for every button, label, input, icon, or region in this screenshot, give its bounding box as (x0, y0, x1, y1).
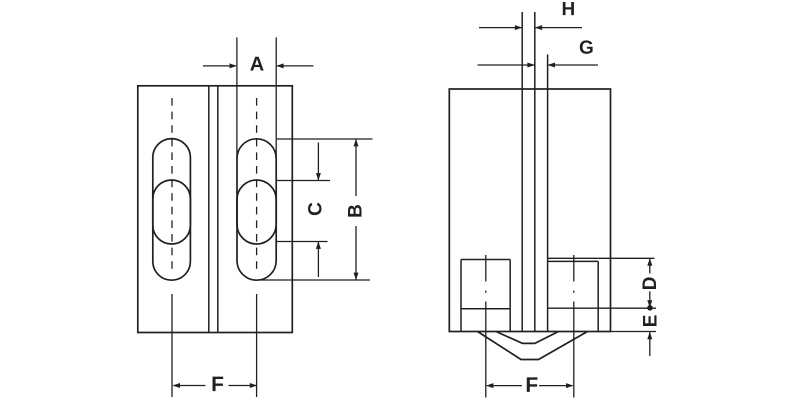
svg-text:A: A (250, 53, 264, 75)
dim D/E junction dot (647, 305, 653, 311)
right view: part body outline (449, 89, 610, 332)
right slot outline (237, 139, 276, 280)
right pocket centerline dash-dot (573, 255, 575, 332)
svg-text:F: F (525, 374, 538, 397)
dim F(right) right arrowhead (566, 383, 573, 388)
right pocket inner line / D bottom extension (548, 307, 656, 309)
dim G right leader (548, 64, 598, 66)
V point inner profile (496, 332, 559, 344)
left slot dashed centerline (171, 98, 173, 272)
dim A extension line left (236, 37, 238, 158)
sawcut slot line right (534, 12, 536, 332)
dim C bottom extension line (276, 241, 328, 243)
svg-text:E: E (641, 315, 662, 328)
dim H left arrowhead (515, 25, 522, 30)
left view: part body outline (138, 86, 292, 333)
svg-text:F: F (211, 373, 224, 396)
right pocket second top edge (548, 260, 599, 262)
dim B line upper (355, 140, 357, 196)
right slot counterbore capsule (237, 180, 276, 244)
right pocket right side (597, 261, 599, 331)
sawcut slot line left (521, 12, 523, 332)
left slot outline (153, 139, 191, 281)
dim D top arrowhead (647, 258, 652, 265)
dim C top leader (317, 143, 319, 180)
dim F(right) line left segment (487, 385, 522, 387)
left pocket centerline dash-dot (485, 255, 487, 332)
left F extension line (171, 294, 173, 397)
dim A extension line right (275, 37, 277, 158)
right F extension line (256, 294, 258, 397)
dim F(right) line right segment (539, 385, 573, 387)
step line (G) (547, 54, 549, 331)
dim A right leader (277, 65, 314, 67)
dim B top extension line (277, 138, 373, 140)
F(right) extension line left (485, 332, 487, 398)
dim A right arrowhead (276, 63, 283, 68)
dim H right leader (536, 27, 582, 29)
dim F(left) line left segment (174, 385, 206, 387)
dim F(left) right arrowhead (250, 383, 257, 388)
svg-text:C: C (305, 202, 326, 216)
dim G right arrowhead (548, 63, 555, 68)
svg-text:H: H (562, 0, 576, 20)
dim H left leader (479, 27, 521, 29)
dim G left leader (478, 64, 535, 66)
left pocket inner line (461, 308, 510, 310)
V point outer profile (478, 332, 588, 360)
left view: groove line 2 (217, 87, 219, 333)
dim A left arrowhead (230, 63, 237, 68)
right pocket top edge / D top extension (548, 257, 655, 259)
dim C top arrowhead (316, 173, 321, 180)
left view: groove line 1 (208, 87, 210, 333)
dim H right arrowhead (535, 25, 542, 30)
dim D line upper (649, 259, 651, 274)
right slot dashed centerline (256, 98, 258, 272)
dim C bottom arrowhead (316, 242, 321, 249)
F(right) extension line right (573, 332, 575, 398)
dim B bottom arrowhead (354, 273, 359, 280)
dim C bottom leader (317, 242, 319, 277)
svg-text:G: G (579, 38, 594, 59)
dim E bottom leader (649, 332, 651, 356)
dim C top extension line (277, 180, 330, 182)
dim F(left) left arrowhead (173, 383, 180, 388)
dim A left leader (203, 65, 236, 67)
dim G left arrowhead (527, 63, 534, 68)
dim D line lower (649, 291, 651, 307)
dim B top arrowhead (354, 139, 359, 146)
left pocket right side (509, 260, 511, 332)
dim B line lower (355, 226, 357, 279)
dim F(right) left arrowhead (486, 383, 493, 388)
dim B bottom extension line (260, 279, 370, 281)
left pocket left side (460, 260, 462, 332)
svg-text:D: D (640, 277, 661, 291)
left slot counterbore capsule (153, 180, 191, 244)
bottom edge extension for E (611, 331, 657, 333)
svg-text:B: B (346, 204, 367, 218)
dim E bottom arrowhead (647, 332, 652, 339)
dim F(left) line right segment (229, 385, 257, 387)
dim D bottom arrowhead (647, 300, 652, 307)
left pocket top edge (461, 259, 510, 261)
